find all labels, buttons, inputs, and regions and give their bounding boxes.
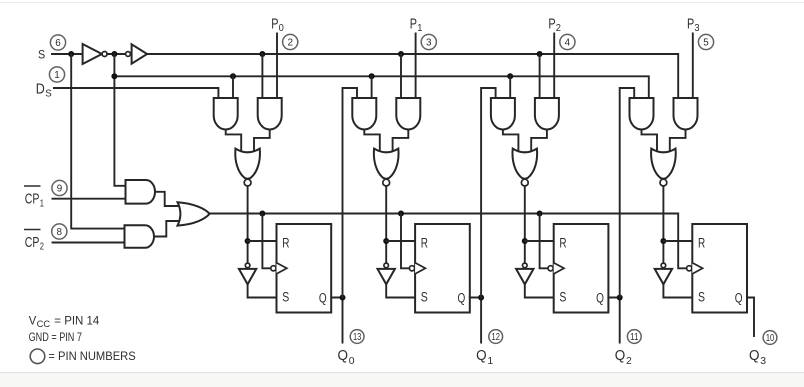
junction Q2 output xyxy=(617,295,623,301)
junction S-bar rail stage 2 xyxy=(369,73,375,79)
svg-text:S: S xyxy=(559,290,566,305)
svg-text:S: S xyxy=(45,87,52,99)
wire between inverters xyxy=(107,53,126,55)
svg-text:3: 3 xyxy=(426,38,432,49)
wire S column (mode to clock gate G2) xyxy=(71,54,124,229)
wire N2 output column xyxy=(385,186,387,263)
wire A1a output xyxy=(226,130,242,153)
wire N4 output column xyxy=(662,186,664,263)
and gate A2b (parallel load data) xyxy=(396,98,420,130)
flip-flop FF4 xyxy=(692,224,747,313)
pin 10 (Q3 output pin number) xyxy=(763,331,777,345)
wire A2b output xyxy=(393,130,409,153)
wire Q0 output xyxy=(331,298,342,343)
svg-text:3: 3 xyxy=(760,355,766,367)
junction S rail stage 1 xyxy=(259,51,265,57)
svg-text:Q: Q xyxy=(319,290,327,305)
and gate A4b (parallel load data) xyxy=(674,98,698,130)
and gate A2a (shift data) xyxy=(352,98,376,130)
wire S rail (select=load) xyxy=(147,54,678,98)
pin 11 (Q2 output pin number) xyxy=(627,330,641,344)
svg-text:S: S xyxy=(421,290,428,305)
wire CP2 input xyxy=(53,242,125,244)
wire P1 input column xyxy=(415,34,417,99)
and gate A3a (shift data) xyxy=(491,98,515,130)
wire S-bar rail (select=shift) xyxy=(114,76,648,98)
svg-text:= PIN NUMBERS: = PIN NUMBERS xyxy=(48,349,135,363)
junction S rail stage 3 xyxy=(537,51,543,57)
wire Q0 feedback to stage 2 shift gate xyxy=(343,88,358,298)
junction Q1 output xyxy=(478,295,484,301)
wire S input stage 3 xyxy=(525,284,554,297)
svg-text:1: 1 xyxy=(54,70,60,81)
wire Q3 output xyxy=(747,298,754,337)
wire R input stage 4 xyxy=(663,240,692,242)
svg-text:S: S xyxy=(282,290,289,305)
wire S input stage 4 xyxy=(663,284,692,297)
wire G1 output xyxy=(155,192,180,206)
wire DS serial data rail xyxy=(54,88,218,98)
inverter I2 (S input) xyxy=(384,263,389,268)
wire P3 input column xyxy=(692,34,694,99)
wire A1b output xyxy=(254,130,270,153)
svg-text:13: 13 xyxy=(353,332,362,343)
svg-text:6: 6 xyxy=(55,38,61,49)
wire clock rail xyxy=(210,214,687,269)
flip-flop FF3 xyxy=(554,224,609,313)
wire A3b output xyxy=(531,130,547,153)
wire clock to FF3 xyxy=(540,214,548,269)
junction N4 output to R xyxy=(660,238,666,244)
svg-text:Q: Q xyxy=(458,290,466,305)
svg-text:P: P xyxy=(548,17,555,33)
svg-text:D: D xyxy=(36,82,45,98)
wire S tap stage 2 xyxy=(400,54,402,98)
and gate A4a (shift data) xyxy=(630,98,654,130)
nor gate N4 xyxy=(651,149,676,179)
wire R input stage 3 xyxy=(525,240,554,242)
nor gate N2 xyxy=(374,149,399,179)
svg-text:Q: Q xyxy=(735,290,743,305)
nor gate N3 xyxy=(512,149,537,179)
wire S tap stage 1 xyxy=(261,54,263,98)
wire S-bar tap stage 1 xyxy=(232,76,234,98)
wire A4b output xyxy=(670,130,686,153)
nor gate N1 xyxy=(235,149,260,179)
junction N3 output to R xyxy=(522,238,528,244)
wire Q1 output xyxy=(470,298,481,343)
junction S-bar rail origin xyxy=(111,73,117,79)
label CP2 (with overline) xyxy=(24,229,41,231)
svg-text:1: 1 xyxy=(487,355,493,367)
wire S-bar tap stage 3 xyxy=(509,76,511,98)
junction S-bar node xyxy=(111,51,117,57)
svg-text:2: 2 xyxy=(556,22,561,34)
svg-text:CP: CP xyxy=(25,192,40,208)
pin 12 (Q1 output pin number) xyxy=(489,330,503,344)
svg-text:11: 11 xyxy=(630,332,639,343)
wire R input stage 1 xyxy=(248,240,277,242)
wire Q2 feedback to stage 4 shift gate xyxy=(620,88,635,298)
pin 13 (Q0 output pin number) xyxy=(350,330,364,344)
svg-text:8: 8 xyxy=(57,227,63,238)
wire P2 input column xyxy=(553,34,555,99)
inverter I3 (S input) xyxy=(523,263,528,268)
wire S input stage 2 xyxy=(386,284,415,297)
wire A2a output xyxy=(364,130,380,153)
flip-flop FF1 xyxy=(277,224,332,313)
svg-text:2: 2 xyxy=(40,241,44,253)
svg-text:CC: CC xyxy=(37,319,51,329)
wire G2 output xyxy=(154,221,180,237)
junction N1 output to R xyxy=(245,238,251,244)
svg-text:1: 1 xyxy=(417,22,422,34)
pin 1 (DS input pin number) xyxy=(49,67,64,82)
junction S input / S column xyxy=(68,51,74,57)
and gate A3b (parallel load data) xyxy=(535,98,559,130)
junction N2 output to R xyxy=(383,238,389,244)
svg-text:R: R xyxy=(559,235,566,250)
inverter U1b xyxy=(126,52,131,57)
or gate G3 (clock select) xyxy=(178,202,210,225)
svg-text:0: 0 xyxy=(349,355,355,367)
pin 2 (P0 input pin number) xyxy=(283,34,298,49)
svg-text:4: 4 xyxy=(565,38,571,49)
junction Q0 output xyxy=(340,295,346,301)
svg-text:S: S xyxy=(38,49,46,61)
junction S rail stage 2 xyxy=(398,51,404,57)
legend pin-number circle xyxy=(30,349,45,364)
label CP1 (with overline) xyxy=(24,185,41,187)
wire R input stage 2 xyxy=(386,240,415,242)
wire S-bar tap stage 2 xyxy=(371,76,373,98)
wire S tap stage 3 xyxy=(539,54,541,98)
svg-text:R: R xyxy=(282,235,289,250)
junction clock rail stage 2 xyxy=(398,211,404,217)
wire S input xyxy=(52,53,83,55)
svg-text:V: V xyxy=(29,316,37,328)
svg-text:9: 9 xyxy=(57,184,63,195)
inverter I4 (S input) xyxy=(661,263,666,268)
svg-text:P: P xyxy=(271,17,278,33)
and gate A1a (shift data) xyxy=(214,98,238,130)
wire clock to FF2 xyxy=(401,214,409,269)
pin 8 (CP2 pin number) xyxy=(52,224,67,239)
and gate G2 (CP2 and S) xyxy=(125,225,155,248)
svg-text:S: S xyxy=(698,290,705,305)
pin 9 (CP1 pin number) xyxy=(52,180,67,195)
pin 5 (P3 input pin number) xyxy=(698,34,713,49)
svg-text:0: 0 xyxy=(279,22,284,34)
pin 3 (P1 input pin number) xyxy=(421,34,436,49)
svg-text:P: P xyxy=(687,17,694,33)
wire S-bar column xyxy=(114,54,125,186)
svg-text:10: 10 xyxy=(766,333,775,344)
wire N3 output column xyxy=(524,186,526,263)
svg-text:2: 2 xyxy=(287,38,293,49)
and gate A1b (parallel load data) xyxy=(258,98,282,130)
junction S-bar rail stage 1 xyxy=(230,73,236,79)
wire P0 input column xyxy=(276,34,278,99)
svg-text:P: P xyxy=(410,17,417,33)
flip-flop FF2 xyxy=(415,224,470,313)
junction clock rail stage 3 xyxy=(537,211,543,217)
wire A3a output xyxy=(503,130,519,153)
svg-text:Q: Q xyxy=(596,290,604,305)
svg-text:1: 1 xyxy=(40,197,44,209)
inverter U1a xyxy=(83,44,102,64)
inverter I1 (S input) xyxy=(245,263,250,268)
and gate G1 (CP1 and S-bar) xyxy=(126,180,156,204)
svg-text:Q: Q xyxy=(338,348,349,364)
svg-text:R: R xyxy=(698,235,705,250)
wire Q1 feedback to stage 3 shift gate xyxy=(481,88,496,298)
wire CP1 input xyxy=(53,198,126,200)
pin 6 (S input pin number) xyxy=(50,35,65,50)
wire S input stage 1 xyxy=(248,284,277,297)
svg-text:GND = PIN 7: GND = PIN 7 xyxy=(29,332,82,344)
svg-text:Q: Q xyxy=(615,348,626,364)
wire A4a output xyxy=(642,130,658,153)
junction S-bar rail stage 3 xyxy=(507,73,513,79)
svg-text:Q: Q xyxy=(476,348,487,364)
svg-text:5: 5 xyxy=(703,38,709,49)
svg-text:3: 3 xyxy=(694,22,699,34)
wire clock to FF1 xyxy=(262,214,270,269)
svg-text:Q: Q xyxy=(749,348,760,364)
wire Q2 output xyxy=(608,298,619,343)
svg-text:2: 2 xyxy=(626,355,632,367)
pin 4 (P2 input pin number) xyxy=(560,34,575,49)
junction clock rail stage 1 xyxy=(259,211,265,217)
svg-text:CP: CP xyxy=(25,235,40,251)
svg-text:= PIN 14: = PIN 14 xyxy=(54,316,100,328)
svg-text:12: 12 xyxy=(492,332,500,343)
wire N1 output column xyxy=(247,186,249,263)
svg-text:R: R xyxy=(421,235,428,250)
